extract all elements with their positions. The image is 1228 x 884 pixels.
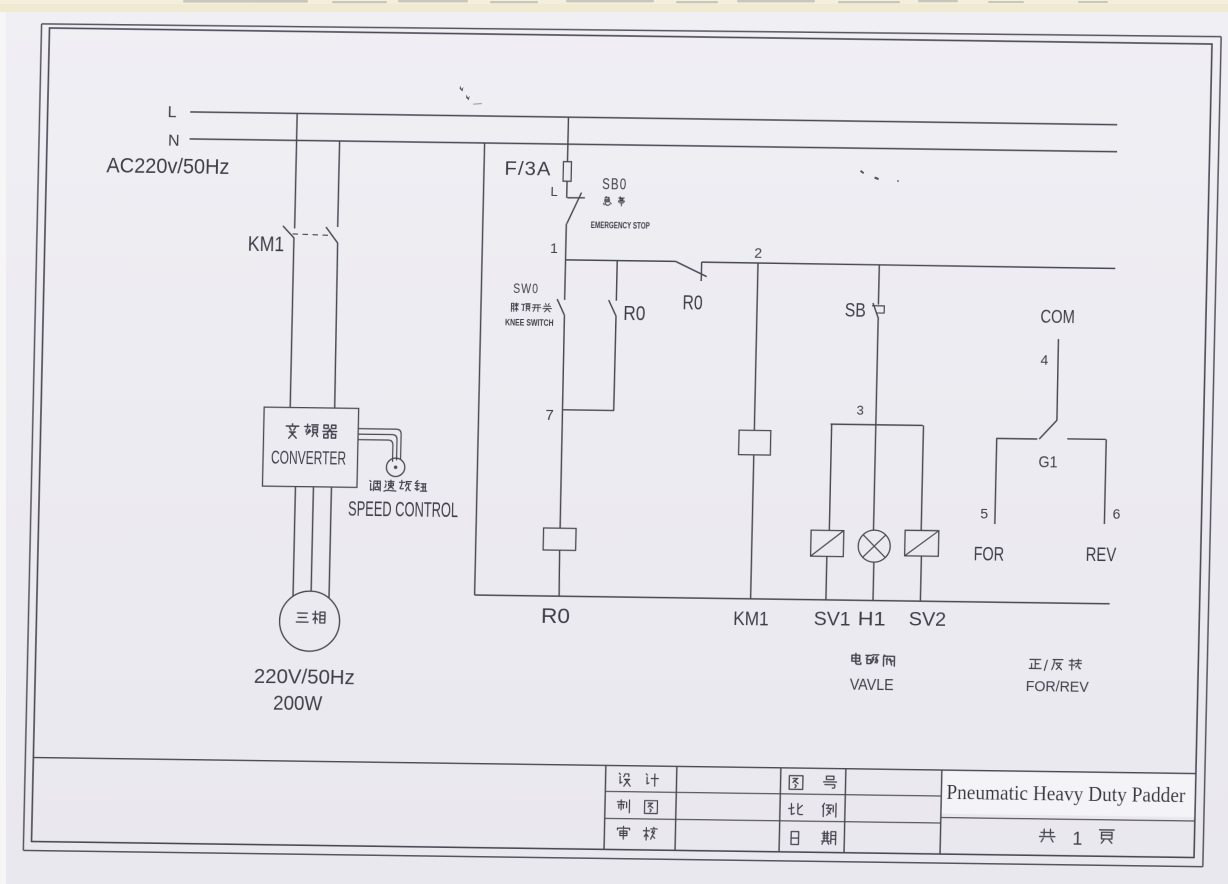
pushbutton SB actuator [872, 306, 884, 313]
pushbutton SB blade [873, 303, 879, 319]
label 变频器 [286, 424, 299, 439]
speed control knob [386, 458, 405, 477]
svg-text:200W: 200W [273, 693, 323, 716]
outer border left [23, 24, 41, 851]
label 急停 [604, 197, 612, 206]
SB0 fixed contact bar [567, 197, 585, 199]
wire REV terminal [1104, 439, 1106, 524]
wire N down to KM1 contact [338, 141, 340, 227]
solenoid valve SV1 [811, 530, 844, 556]
wire node1 rail [566, 260, 676, 262]
wire node2 to KM1 coil [754, 263, 758, 430]
pasted white label [942, 772, 1195, 817]
wire COM down [1057, 339, 1059, 420]
svg-text:F/3A: F/3A [504, 159, 551, 181]
wire H1 to bottom rail [872, 562, 875, 600]
title block row line 2 [605, 818, 941, 823]
label 电磁阀 [852, 653, 861, 664]
title block vertical x693 [675, 766, 677, 850]
wire N line [190, 139, 1118, 152]
wire node2 to SB [877, 265, 880, 305]
svg-text:AC220v/50Hz: AC220v/50Hz [106, 154, 230, 179]
label 共 [1039, 829, 1055, 842]
wire R0 coil to bottom rail [559, 550, 561, 596]
contactor KM1 pole2 blade [326, 227, 338, 243]
label 比例 [789, 803, 803, 814]
svg-text:SB: SB [845, 301, 866, 322]
wire L line [190, 112, 1117, 125]
outer border right [1203, 37, 1221, 867]
motor circle 三相 [279, 591, 340, 652]
wire R0 contact to node 7 [614, 316, 616, 411]
svg-text:SW0: SW0 [513, 281, 539, 296]
svg-text:L: L [167, 104, 176, 121]
switch SW0 blade [557, 299, 565, 315]
contactor coil KM1 [739, 430, 771, 455]
svg-text:7: 7 [545, 407, 554, 424]
wire L down to KM1 contact [295, 113, 298, 228]
specks [460, 86, 899, 182]
svg-text:R0: R0 [623, 303, 645, 325]
label 膝顶开关 [511, 303, 518, 312]
wire converter to motor 1 [293, 487, 295, 598]
svg-text:6: 6 [1112, 506, 1120, 522]
label 页 [1099, 830, 1114, 844]
svg-text:G1: G1 [1038, 454, 1057, 471]
svg-text:KNEE SWITCH: KNEE SWITCH [505, 317, 554, 328]
wire L to fuse [567, 117, 570, 162]
svg-text:KM1: KM1 [733, 609, 769, 630]
svg-text:FOR/REV: FOR/REV [1026, 678, 1089, 696]
wire converter to motor 3 [329, 487, 331, 598]
lamp H1 [858, 530, 891, 562]
svg-text:1: 1 [550, 240, 558, 256]
svg-text:EMERGENCY STOP: EMERGENCY STOP [591, 220, 651, 232]
svg-text:5: 5 [980, 505, 988, 521]
selector G1 blade [1039, 420, 1057, 440]
wire KM1 coil to bottom rail [751, 455, 754, 599]
svg-text:SV1: SV1 [813, 609, 850, 631]
solenoid valve SV2 [905, 530, 939, 556]
wire G1 left seat [996, 437, 1037, 440]
title block vertical x797 [779, 768, 781, 852]
outer border bottom [23, 850, 1203, 866]
label 正/反转 [1029, 659, 1041, 668]
converter box [262, 407, 358, 487]
relay coil R0 [543, 528, 576, 550]
wire KM1 pole1 to converter [290, 238, 294, 407]
outer border top [42, 20, 1222, 40]
wire converter to motor 2 [311, 487, 313, 594]
sheet group (slight scan rotation) [0, 0, 1, 1]
svg-text:R0: R0 [541, 605, 571, 628]
title block top line [33, 757, 1196, 773]
svg-text:SV2: SV2 [908, 610, 946, 632]
title block vertical x958 [940, 770, 942, 854]
wire branch to SV2 [921, 425, 923, 530]
svg-text:4: 4 [1040, 352, 1048, 368]
wire valve branch rail [830, 424, 922, 425]
relay contact R0 blade [608, 300, 616, 316]
svg-text:SB0: SB0 [602, 176, 627, 193]
label 设计 [619, 773, 630, 786]
svg-text:CONVERTER: CONVERTER [271, 448, 346, 469]
label 日期 [791, 832, 799, 845]
svg-text:1: 1 [1072, 829, 1082, 849]
svg-text:COM: COM [1040, 306, 1075, 327]
wire KM1 pole2 to converter [334, 243, 338, 408]
wire G1 right seat [1067, 438, 1106, 441]
title block row line 1 [605, 791, 941, 796]
svg-text:L: L [550, 184, 558, 199]
scan smudges top [183, 0, 1108, 3]
label 审核 [617, 826, 629, 839]
scan left white edge [0, 0, 6, 884]
KM1 linkage dashed line [293, 234, 333, 236]
wire node7 link [563, 409, 615, 412]
wire branch to SV1 [829, 424, 831, 530]
wire SV1 to bottom rail [825, 556, 828, 600]
label 制图 [617, 800, 629, 813]
wire control circuit left rail [475, 143, 485, 595]
relay contact R0 bypass blade [675, 261, 707, 276]
wires converter to speed knob [358, 429, 402, 462]
contactor KM1 pole1 blade [283, 226, 295, 238]
title block vertical x622 [604, 765, 606, 849]
label 调速旋钮 [370, 480, 381, 490]
label 三相 inside motor [296, 613, 308, 622]
svg-text:3: 3 [856, 403, 864, 418]
wire fuse to SB0 [566, 181, 568, 198]
scan top cream band [0, 0, 1228, 12]
svg-text:VAVLE: VAVLE [850, 677, 894, 695]
wire node7 to R0 coil [560, 410, 563, 528]
svg-text:FOR: FOR [973, 544, 1004, 565]
svg-text:SPEED CONTROL: SPEED CONTROL [348, 498, 459, 523]
title block vertical x862 [844, 769, 846, 853]
wire FOR terminal [995, 438, 997, 524]
wire node1 to SW0 [564, 260, 567, 300]
svg-text:R0: R0 [682, 292, 702, 314]
svg-text:REV: REV [1085, 545, 1116, 566]
title block right divider [941, 818, 1195, 822]
wire SB to H1 lamp [874, 318, 879, 530]
wire SB0 to node 1 [565, 224, 568, 260]
label 图号 [789, 776, 803, 790]
svg-text:KM1: KM1 [248, 233, 285, 256]
svg-text:220V/50Hz: 220V/50Hz [254, 666, 355, 689]
svg-text:2: 2 [754, 245, 762, 261]
wire node2 rail [702, 262, 1116, 268]
wire SV2 to bottom rail [919, 556, 922, 601]
svg-text:H1: H1 [857, 609, 885, 630]
relay contact R0 bypass bar [700, 262, 702, 281]
fuse F [563, 162, 571, 182]
wire control circuit bottom rail [475, 595, 1110, 604]
wire node1 to R0 contact [615, 261, 618, 301]
svg-text:N: N [168, 133, 180, 150]
svg-text:Pneumatic Heavy Duty Padder: Pneumatic Heavy Duty Padder [946, 780, 1186, 807]
wire SW0 to node 7 [562, 315, 564, 410]
SB0 blade [567, 192, 582, 223]
